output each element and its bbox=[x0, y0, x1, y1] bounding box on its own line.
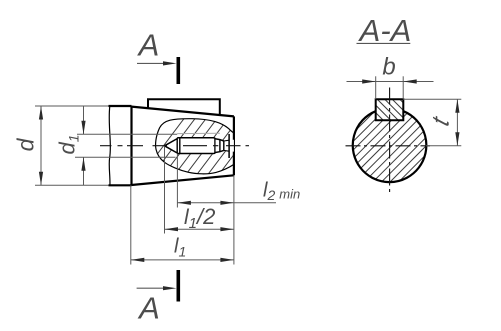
keyway slot window bbox=[165, 138, 234, 154]
section mark A bottom bbox=[177, 270, 181, 302]
keyway slot profile bbox=[165, 134, 230, 158]
local section wavy boundary bbox=[156, 119, 234, 174]
cone top generatrix bbox=[132, 107, 234, 117]
extension line right (end face) bbox=[233, 175, 235, 264]
cone large-end edge bbox=[130, 106, 132, 185]
break line (wavy) bbox=[109, 106, 110, 185]
cone bottom generatrix bbox=[132, 175, 234, 185]
key area white fill bbox=[376, 99, 404, 120]
svg-text:d: d bbox=[13, 137, 39, 151]
key (protruding) bbox=[148, 99, 220, 115]
extension line left of l1 bbox=[130, 185, 132, 264]
d1 extension line top bbox=[77, 133, 177, 135]
keyway edge line (faint) bbox=[177, 132, 220, 134]
shaft cylinder bottom contour bbox=[109, 184, 132, 186]
shaft section hatching bbox=[296, 95, 494, 190]
svg-text:A: A bbox=[137, 291, 160, 326]
dimension d1 bbox=[83, 106, 85, 134]
key section hatching bbox=[343, 95, 433, 125]
svg-text:b: b bbox=[382, 54, 395, 81]
shaft circle bbox=[353, 111, 427, 182]
section vertical centerline bbox=[389, 88, 391, 193]
dimension l1 bbox=[131, 259, 234, 261]
local section hatching bbox=[140, 110, 290, 177]
section mark A top bbox=[177, 57, 181, 84]
svg-text:A-A: A-A bbox=[358, 13, 412, 48]
dimension t bbox=[403, 98, 461, 100]
d1 extension line bottom bbox=[75, 156, 176, 158]
shaft cylinder top contour bbox=[109, 105, 132, 107]
dimension l2 min bbox=[177, 202, 276, 204]
main axis centerline bbox=[100, 145, 249, 147]
dimension b bbox=[375, 76, 377, 99]
shaft end face bbox=[233, 116, 235, 175]
dimension d bbox=[35, 105, 109, 107]
key cross-section rectangle bbox=[376, 99, 404, 120]
svg-text:A: A bbox=[137, 28, 160, 63]
extension line for l2 bbox=[176, 154, 178, 208]
section horizontal centerline bbox=[346, 145, 431, 147]
dimension l1/2 bbox=[165, 228, 234, 230]
extension line for l1/2 bbox=[164, 147, 166, 234]
